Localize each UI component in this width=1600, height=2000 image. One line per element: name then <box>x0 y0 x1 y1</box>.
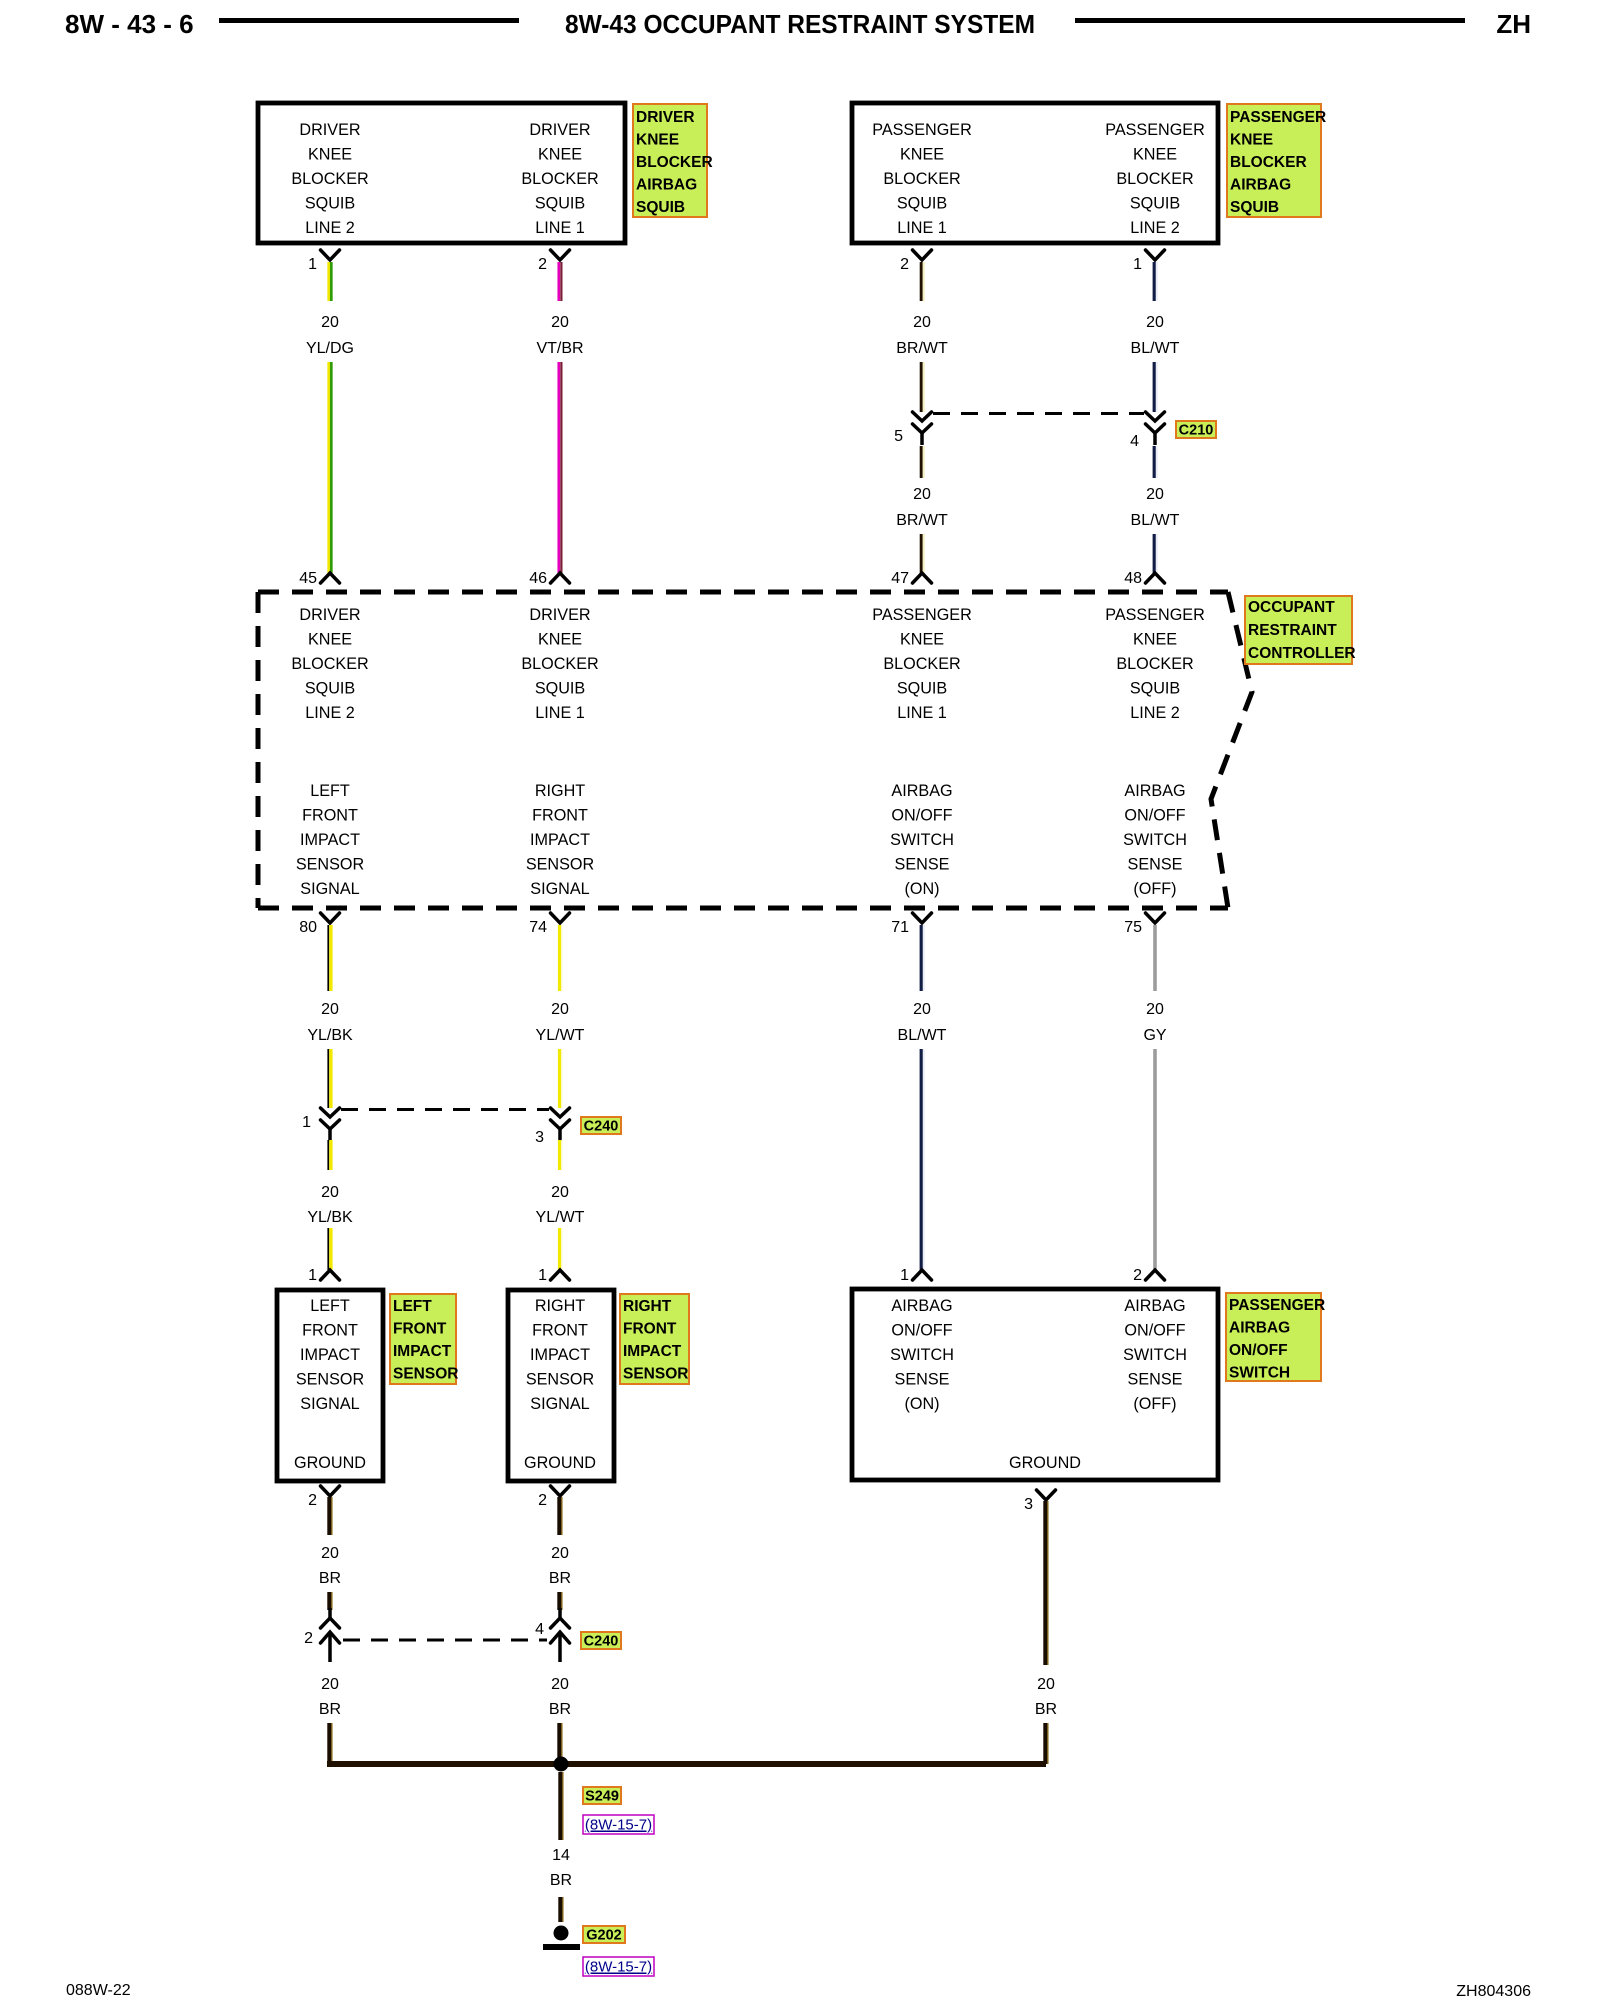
wire 14 BR to ground <box>560 1897 562 1922</box>
svg-text:BLOCKER: BLOCKER <box>521 655 598 673</box>
svg-text:BLOCKER: BLOCKER <box>636 154 713 171</box>
svg-text:SENSE: SENSE <box>895 1371 950 1389</box>
component box passenger airbag on/off switch <box>852 1289 1218 1480</box>
connector label S249 <box>583 1787 621 1805</box>
label RIGHT FRONT IMPACT SENSOR <box>620 1294 689 1384</box>
svg-text:AIRBAG: AIRBAG <box>1229 1320 1290 1337</box>
svg-text:20: 20 <box>1146 1001 1164 1018</box>
svg-text:IMPACT: IMPACT <box>623 1343 682 1360</box>
svg-text:SWITCH: SWITCH <box>1123 831 1187 849</box>
svg-text:(8W-15-7): (8W-15-7) <box>585 1817 652 1834</box>
svg-text:74: 74 <box>529 919 547 936</box>
svg-text:SENSE: SENSE <box>1128 856 1183 874</box>
pin 1 right front impact sensor <box>538 1267 569 1284</box>
svg-text:KNEE: KNEE <box>538 146 582 164</box>
wire 20 BL/WT pin1 to C210 <box>1154 262 1157 301</box>
pin 2 driver squib line 1 <box>538 250 569 273</box>
svg-text:8W-43 OCCUPANT RESTRAINT SYSTE: 8W-43 OCCUPANT RESTRAINT SYSTEM <box>565 9 1035 39</box>
svg-text:BR/WT: BR/WT <box>896 512 948 529</box>
svg-text:LINE 1: LINE 1 <box>535 219 585 237</box>
pin 48 controller <box>1124 570 1164 587</box>
svg-text:GROUND: GROUND <box>1009 1454 1081 1472</box>
connector C240 jumper dashed wire (signal) <box>341 1108 549 1111</box>
svg-text:KNEE: KNEE <box>900 631 944 649</box>
svg-text:YL/BK: YL/BK <box>307 1209 353 1226</box>
svg-text:SQUIB: SQUIB <box>1130 195 1180 213</box>
svg-text:SENSOR: SENSOR <box>296 1371 364 1389</box>
svg-text:SENSE: SENSE <box>895 856 950 874</box>
svg-text:SWITCH: SWITCH <box>1123 1346 1187 1364</box>
ground G202 <box>543 1926 580 1951</box>
pin 80 controller <box>299 913 339 936</box>
svg-text:SWITCH: SWITCH <box>890 1346 954 1364</box>
svg-text:20: 20 <box>321 314 339 331</box>
pin 2 airbag on/off switch <box>1133 1267 1164 1284</box>
svg-text:PASSENGER: PASSENGER <box>872 606 972 624</box>
svg-text:45: 45 <box>299 570 317 587</box>
svg-text:FRONT: FRONT <box>623 1321 677 1338</box>
svg-text:SWITCH: SWITCH <box>890 831 954 849</box>
svg-text:SENSOR: SENSOR <box>393 1366 458 1383</box>
svg-text:IMPACT: IMPACT <box>393 1343 452 1360</box>
svg-text:S249: S249 <box>585 1789 619 1805</box>
reference link S249 ref <box>583 1815 654 1834</box>
svg-text:1: 1 <box>538 1267 547 1284</box>
svg-text:(OFF): (OFF) <box>1133 880 1176 898</box>
svg-text:IMPACT: IMPACT <box>300 1346 360 1364</box>
component box left front impact sensor <box>277 1290 383 1481</box>
svg-text:LINE 1: LINE 1 <box>535 704 585 722</box>
wire 20 YL/BK C240 to sensor <box>328 1140 331 1170</box>
svg-text:ON/OFF: ON/OFF <box>1229 1342 1288 1359</box>
svg-text:RESTRAINT: RESTRAINT <box>1248 622 1337 639</box>
svg-text:DRIVER: DRIVER <box>636 109 695 126</box>
svg-text:YL/DG: YL/DG <box>306 340 354 357</box>
svg-text:YL/BK: YL/BK <box>307 1027 353 1044</box>
svg-text:SQUIB: SQUIB <box>1230 199 1279 216</box>
wire 20 BR/WT pin2 to C210 <box>921 262 924 301</box>
svg-text:PASSENGER: PASSENGER <box>1105 121 1205 139</box>
svg-text:14: 14 <box>552 1847 570 1864</box>
connector C240 jumper dashed wire (ground) <box>343 1639 547 1642</box>
svg-text:PASSENGER: PASSENGER <box>872 121 972 139</box>
wire 20 YL/BK pin80 to C240 <box>328 925 331 991</box>
svg-text:LEFT: LEFT <box>310 1297 350 1315</box>
svg-text:8W - 43 - 6: 8W - 43 - 6 <box>65 9 194 39</box>
svg-text:AIRBAG: AIRBAG <box>1124 1297 1185 1315</box>
svg-text:YL/WT: YL/WT <box>536 1209 585 1226</box>
svg-text:KNEE: KNEE <box>308 146 352 164</box>
svg-text:BR: BR <box>549 1570 571 1587</box>
svg-text:1: 1 <box>900 1267 909 1284</box>
svg-text:KNEE: KNEE <box>538 631 582 649</box>
svg-text:1: 1 <box>302 1114 311 1131</box>
svg-text:AIRBAG: AIRBAG <box>1230 177 1291 194</box>
svg-text:YL/WT: YL/WT <box>536 1027 585 1044</box>
svg-text:BLOCKER: BLOCKER <box>291 655 368 673</box>
svg-text:LEFT: LEFT <box>393 1298 432 1315</box>
connector label C210 <box>1176 421 1216 439</box>
svg-text:BLOCKER: BLOCKER <box>1116 655 1193 673</box>
svg-text:5: 5 <box>894 428 903 445</box>
svg-text:AIRBAG: AIRBAG <box>636 177 697 194</box>
svg-text:(ON): (ON) <box>904 880 939 898</box>
svg-text:BR: BR <box>550 1872 572 1889</box>
wire 20 BL/WT C210 to pin48 <box>1154 446 1157 478</box>
svg-text:20: 20 <box>913 1001 931 1018</box>
svg-text:20: 20 <box>913 486 931 503</box>
wire splice to 14 BR <box>560 1772 562 1840</box>
pin 2 left sensor ground <box>308 1486 339 1509</box>
svg-text:LINE 2: LINE 2 <box>1130 704 1180 722</box>
svg-text:IMPACT: IMPACT <box>530 831 590 849</box>
svg-text:FRONT: FRONT <box>532 1322 588 1340</box>
svg-text:ON/OFF: ON/OFF <box>1124 1322 1185 1340</box>
svg-text:BLOCKER: BLOCKER <box>883 655 960 673</box>
svg-text:3: 3 <box>1024 1496 1033 1513</box>
svg-text:1: 1 <box>1133 256 1142 273</box>
pin 2 right sensor ground <box>538 1486 569 1509</box>
reference link G202 ref <box>583 1957 654 1976</box>
svg-text:GROUND: GROUND <box>294 1454 366 1472</box>
svg-text:KNEE: KNEE <box>308 631 352 649</box>
svg-text:PASSENGER: PASSENGER <box>1230 109 1326 126</box>
svg-text:G202: G202 <box>586 1928 621 1944</box>
svg-text:2: 2 <box>538 1492 547 1509</box>
svg-text:OCCUPANT: OCCUPANT <box>1248 599 1335 616</box>
pin 74 controller <box>529 913 569 936</box>
svg-text:RIGHT: RIGHT <box>535 1297 585 1315</box>
label LEFT FRONT IMPACT SENSOR <box>390 1294 458 1384</box>
svg-text:BR: BR <box>1035 1701 1057 1718</box>
connector C210 pin 4 <box>1146 412 1165 445</box>
svg-text:AIRBAG: AIRBAG <box>891 782 952 800</box>
svg-text:1: 1 <box>308 256 317 273</box>
wire 20 BR left sensor to C240 <box>329 1497 331 1535</box>
svg-text:20: 20 <box>321 1676 339 1693</box>
pin 3 switch ground <box>1024 1490 1055 1513</box>
svg-text:BLOCKER: BLOCKER <box>883 170 960 188</box>
svg-text:20: 20 <box>1146 486 1164 503</box>
svg-text:IMPACT: IMPACT <box>300 831 360 849</box>
pin 1 passenger squib line 2 <box>1133 250 1164 273</box>
svg-text:80: 80 <box>299 919 317 936</box>
component box passenger knee blocker airbag squib <box>852 103 1218 243</box>
svg-text:2: 2 <box>304 1630 313 1647</box>
pin 1 airbag on/off switch <box>900 1267 931 1284</box>
svg-text:SENSOR: SENSOR <box>526 856 594 874</box>
svg-text:C210: C210 <box>1179 423 1214 439</box>
svg-text:DRIVER: DRIVER <box>299 606 360 624</box>
svg-text:FRONT: FRONT <box>302 1322 358 1340</box>
header rule left <box>219 18 519 23</box>
connector C240 pin 4 <box>551 1608 570 1662</box>
component box driver knee blocker airbag squib <box>258 103 625 243</box>
svg-text:SQUIB: SQUIB <box>897 195 947 213</box>
svg-text:PASSENGER: PASSENGER <box>1105 606 1205 624</box>
svg-text:BR: BR <box>319 1570 341 1587</box>
svg-text:SENSOR: SENSOR <box>296 856 364 874</box>
svg-text:2: 2 <box>308 1492 317 1509</box>
svg-text:KNEE: KNEE <box>1133 631 1177 649</box>
connector label C240 lower <box>581 1632 621 1650</box>
svg-text:KNEE: KNEE <box>636 132 679 149</box>
svg-text:BL/WT: BL/WT <box>1131 340 1180 357</box>
pin 47 controller <box>891 570 931 587</box>
svg-text:SQUIB: SQUIB <box>535 195 585 213</box>
ground bus wire <box>327 1761 1046 1767</box>
svg-text:47: 47 <box>891 570 909 587</box>
svg-text:20: 20 <box>321 1001 339 1018</box>
svg-text:AIRBAG: AIRBAG <box>891 1297 952 1315</box>
svg-text:20: 20 <box>551 1184 569 1201</box>
svg-text:C240: C240 <box>584 1634 619 1650</box>
svg-text:(8W-15-7): (8W-15-7) <box>585 1959 652 1976</box>
svg-text:BR: BR <box>319 1701 341 1718</box>
svg-text:FRONT: FRONT <box>393 1321 447 1338</box>
svg-text:20: 20 <box>1037 1676 1055 1693</box>
wire 20 BL/WT pin71 to switch <box>921 925 924 991</box>
svg-text:KNEE: KNEE <box>1230 132 1273 149</box>
svg-text:AIRBAG: AIRBAG <box>1124 782 1185 800</box>
svg-text:(ON): (ON) <box>904 1395 939 1413</box>
svg-text:20: 20 <box>321 1184 339 1201</box>
connector C210 jumper dashed wire <box>933 412 1144 415</box>
svg-text:VT/BR: VT/BR <box>536 340 583 357</box>
svg-text:BL/WT: BL/WT <box>898 1027 947 1044</box>
svg-text:BLOCKER: BLOCKER <box>291 170 368 188</box>
svg-text:75: 75 <box>1124 919 1142 936</box>
svg-text:088W-22: 088W-22 <box>66 1982 131 1999</box>
pin 46 controller <box>529 570 569 587</box>
svg-text:DRIVER: DRIVER <box>299 121 360 139</box>
svg-text:1: 1 <box>308 1267 317 1284</box>
svg-text:C240: C240 <box>584 1119 619 1135</box>
svg-text:SENSOR: SENSOR <box>526 1371 594 1389</box>
svg-text:ZH804306: ZH804306 <box>1456 1983 1531 2000</box>
svg-text:2: 2 <box>1133 1267 1142 1284</box>
svg-text:71: 71 <box>891 919 909 936</box>
svg-text:SQUIB: SQUIB <box>305 195 355 213</box>
svg-text:ZH: ZH <box>1496 9 1531 39</box>
svg-text:KNEE: KNEE <box>900 146 944 164</box>
svg-text:RIGHT: RIGHT <box>535 782 585 800</box>
wire 20 BR right sensor to C240 <box>559 1497 561 1535</box>
svg-text:20: 20 <box>321 1545 339 1562</box>
svg-text:LINE 1: LINE 1 <box>897 219 947 237</box>
svg-text:SIGNAL: SIGNAL <box>530 1395 589 1413</box>
svg-text:RIGHT: RIGHT <box>623 1298 672 1315</box>
svg-text:SENSOR: SENSOR <box>623 1366 688 1383</box>
svg-text:SIGNAL: SIGNAL <box>300 1395 359 1413</box>
svg-text:LINE 2: LINE 2 <box>305 704 355 722</box>
svg-text:DRIVER: DRIVER <box>529 121 590 139</box>
svg-text:LINE 1: LINE 1 <box>897 704 947 722</box>
occupant restraint controller box <box>258 592 1252 908</box>
svg-text:46: 46 <box>529 570 547 587</box>
svg-text:GY: GY <box>1143 1027 1166 1044</box>
pin 71 controller <box>891 913 931 936</box>
svg-text:SWITCH: SWITCH <box>1229 1365 1290 1382</box>
svg-text:GROUND: GROUND <box>524 1454 596 1472</box>
connector C240 pin 2 <box>321 1608 340 1662</box>
svg-text:BL/WT: BL/WT <box>1131 512 1180 529</box>
svg-text:SENSE: SENSE <box>1128 1371 1183 1389</box>
svg-text:LEFT: LEFT <box>310 782 350 800</box>
connector label C240 upper <box>581 1117 621 1135</box>
svg-text:SQUIB: SQUIB <box>897 680 947 698</box>
svg-text:LINE 2: LINE 2 <box>305 219 355 237</box>
connector label G202 <box>583 1926 625 1944</box>
svg-text:3: 3 <box>535 1129 544 1146</box>
svg-text:IMPACT: IMPACT <box>530 1346 590 1364</box>
svg-text:4: 4 <box>1130 433 1139 450</box>
svg-text:20: 20 <box>1146 314 1164 331</box>
pin 45 controller <box>299 570 339 587</box>
splice junction S249 <box>554 1757 569 1772</box>
connector C240 pin 1 <box>321 1108 340 1141</box>
svg-text:SQUIB: SQUIB <box>1130 680 1180 698</box>
svg-text:FRONT: FRONT <box>532 807 588 825</box>
wire 20 YL/DG pin1 to pin45 <box>329 262 332 301</box>
svg-text:48: 48 <box>1124 570 1142 587</box>
svg-text:20: 20 <box>551 314 569 331</box>
pin 1 left front impact sensor <box>308 1267 339 1284</box>
svg-text:SQUIB: SQUIB <box>305 680 355 698</box>
pin 75 controller <box>1124 913 1164 936</box>
label PASSENGER AIRBAG ON/OFF SWITCH <box>1226 1293 1325 1382</box>
svg-text:2: 2 <box>900 256 909 273</box>
svg-text:BLOCKER: BLOCKER <box>521 170 598 188</box>
svg-text:2: 2 <box>538 256 547 273</box>
svg-text:CONTROLLER: CONTROLLER <box>1248 645 1356 662</box>
wire 20 YL/WT pin74 to C240 <box>560 925 562 991</box>
wire 20 VT/BR pin2 to pin46 <box>559 262 562 301</box>
svg-text:FRONT: FRONT <box>302 807 358 825</box>
header rule right <box>1075 18 1465 23</box>
svg-text:LINE 2: LINE 2 <box>1130 219 1180 237</box>
svg-text:20: 20 <box>551 1545 569 1562</box>
connector C210 pin 5 <box>913 412 932 445</box>
wire 20 YL/WT C240 to sensor <box>560 1140 562 1170</box>
label PASSENGER KNEE BLOCKER AIRBAG SQUIB <box>1227 104 1326 217</box>
svg-text:KNEE: KNEE <box>1133 146 1177 164</box>
svg-text:SQUIB: SQUIB <box>636 199 685 216</box>
svg-text:20: 20 <box>551 1001 569 1018</box>
svg-text:(OFF): (OFF) <box>1133 1395 1176 1413</box>
pin 2 passenger squib line 1 <box>900 250 931 273</box>
svg-text:BLOCKER: BLOCKER <box>1116 170 1193 188</box>
wire 20 BR/WT C210 to pin47 <box>921 446 924 478</box>
svg-text:SIGNAL: SIGNAL <box>300 880 359 898</box>
svg-text:DRIVER: DRIVER <box>529 606 590 624</box>
label OCCUPANT RESTRAINT CONTROLLER <box>1245 596 1356 664</box>
svg-text:ON/OFF: ON/OFF <box>891 807 952 825</box>
wire 20 BR switch ground to splice <box>1045 1501 1047 1665</box>
component box right front impact sensor <box>508 1290 614 1481</box>
svg-text:BR: BR <box>549 1701 571 1718</box>
pin 1 driver squib line 2 <box>308 250 339 273</box>
svg-text:20: 20 <box>551 1676 569 1693</box>
svg-text:ON/OFF: ON/OFF <box>891 1322 952 1340</box>
svg-text:BLOCKER: BLOCKER <box>1230 154 1307 171</box>
svg-text:BR/WT: BR/WT <box>896 340 948 357</box>
svg-text:PASSENGER: PASSENGER <box>1229 1297 1325 1314</box>
svg-text:SIGNAL: SIGNAL <box>530 880 589 898</box>
label DRIVER KNEE BLOCKER AIRBAG SQUIB <box>633 104 713 217</box>
wire 20 GY pin75 to switch <box>1153 925 1157 991</box>
connector C240 pin 3 <box>551 1108 570 1141</box>
svg-text:SQUIB: SQUIB <box>535 680 585 698</box>
svg-text:4: 4 <box>535 1621 544 1638</box>
svg-text:ON/OFF: ON/OFF <box>1124 807 1185 825</box>
svg-text:20: 20 <box>913 314 931 331</box>
